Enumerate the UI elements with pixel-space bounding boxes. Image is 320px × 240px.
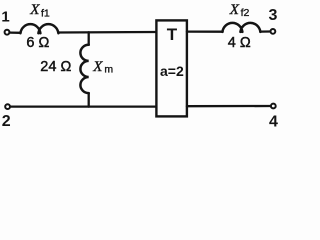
inductor Xf2 bbox=[222, 23, 260, 32]
svg-text:X: X bbox=[92, 59, 103, 75]
svg-text:a=2: a=2 bbox=[160, 63, 184, 79]
node 3 terminal bbox=[271, 29, 276, 34]
inductor Xf1 bbox=[20, 24, 58, 33]
wire Xf1 to transformer (top rail left) bbox=[58, 31, 156, 34]
svg-text:6 Ω: 6 Ω bbox=[26, 35, 49, 51]
wire junction down to Xm bbox=[88, 32, 90, 45]
node 4 terminal bbox=[271, 104, 276, 109]
svg-text:24 Ω: 24 Ω bbox=[40, 59, 71, 75]
svg-text:X: X bbox=[29, 2, 40, 18]
svg-text:f1: f1 bbox=[41, 8, 50, 20]
wire Xf2 to terminal 3 bbox=[260, 30, 269, 32]
svg-text:3: 3 bbox=[268, 7, 277, 24]
wire transformer to Xf2 (top rail right) bbox=[187, 30, 223, 32]
svg-text:f2: f2 bbox=[241, 7, 250, 19]
svg-text:m: m bbox=[104, 63, 113, 75]
node 1 terminal bbox=[5, 30, 10, 35]
svg-text:1: 1 bbox=[1, 9, 9, 26]
node 2 terminal bbox=[5, 104, 10, 109]
svg-text:X: X bbox=[229, 2, 240, 18]
svg-text:T: T bbox=[167, 25, 178, 44]
wire terminal2 to transformer (bottom rail left) bbox=[11, 105, 157, 107]
wire terminal1 to Xf1 bbox=[10, 31, 20, 34]
transformer U1 box bbox=[156, 20, 187, 116]
wire transformer to terminal 4 (bottom rail right) bbox=[187, 105, 270, 107]
inductor Xm bbox=[80, 45, 88, 93]
wire Xm to bottom rail bbox=[88, 93, 90, 107]
svg-text:2: 2 bbox=[2, 113, 11, 130]
svg-text:4 Ω: 4 Ω bbox=[228, 35, 251, 51]
svg-text:4: 4 bbox=[269, 114, 278, 131]
